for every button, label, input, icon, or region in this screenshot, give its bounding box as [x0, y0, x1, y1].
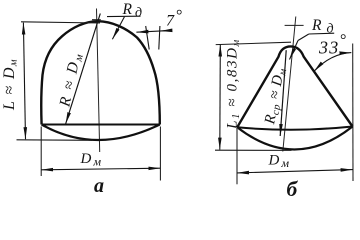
underline Rd right [309, 32, 334, 35]
svg-text:а: а [94, 175, 104, 197]
svg-text:б: б [287, 177, 299, 201]
centerline right cone [283, 17, 296, 152]
dimension L: top extension line [21, 22, 100, 23]
33 deg angle arc [314, 53, 352, 72]
cone base arc [237, 127, 352, 150]
svg-text:7: 7 [166, 13, 175, 30]
dimension L line with arrows [23, 23, 25, 140]
leader line Rd right [298, 34, 309, 41]
radius line Rcp [280, 50, 286, 136]
svg-text:Rср ≈ Dм: Rср ≈ Dм [262, 66, 289, 126]
Dm dimension left: left extension line [40, 127, 42, 177]
Dm dimension left: right extension line [159, 127, 161, 181]
svg-text:Dм: Dм [268, 153, 290, 171]
svg-text:Dм: Dм [80, 151, 102, 169]
radius line R [66, 14, 101, 125]
7 deg vertical reference [159, 26, 160, 50]
cone base chord [237, 127, 352, 130]
svg-text:33: 33 [318, 38, 339, 58]
dimension L1: bottom extension line [215, 149, 292, 151]
dimension L1 line with arrows [219, 45, 222, 150]
vertical reference and right extension line [352, 44, 354, 182]
cone outline [237, 46, 352, 127]
7 deg dimension line with arrows [136, 30, 171, 32]
dimension L1: top extension line [216, 42, 291, 44]
svg-text:°: ° [176, 8, 183, 25]
Dm dimension right: left extension line [236, 129, 238, 184]
theoretical vertex cross [285, 24, 304, 26]
Dm dimension line left figure [41, 168, 160, 170]
Dm dimension line right figure [237, 170, 353, 173]
leader line Rd left [107, 15, 141, 17]
apex tick left dome [92, 19, 101, 21]
svg-text:Rд: Rд [122, 1, 143, 21]
svg-text:°: ° [340, 32, 347, 49]
dimension L: bottom extension line [17, 139, 93, 142]
svg-text:R ≈ Dм: R ≈ Dм [56, 50, 86, 110]
centerline left dome [97, 9, 100, 153]
dome base chord [42, 124, 160, 126]
dome outline [41, 21, 160, 124]
svg-text:L ≈ Dм: L ≈ Dм [1, 58, 20, 111]
7 deg tangent line [146, 26, 150, 50]
svg-text:L1 ≈ 0,83Dм: L1 ≈ 0,83Dм [225, 38, 243, 130]
dome base arc [42, 125, 160, 141]
